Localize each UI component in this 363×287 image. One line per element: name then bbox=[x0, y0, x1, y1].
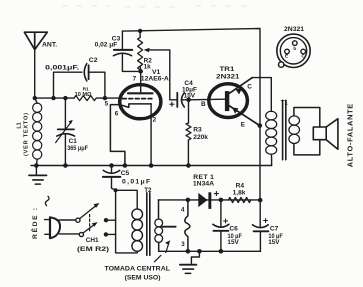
node R4 right / B+ bbox=[258, 198, 263, 203]
tube V1 12AE6-A bbox=[105, 69, 169, 166]
node R2 top bbox=[138, 29, 142, 33]
node switch upper bbox=[104, 218, 108, 222]
capacitor C3 0,02uF bbox=[95, 31, 141, 71]
node C2 right bbox=[103, 96, 107, 100]
svg-text:CH1: CH1 bbox=[86, 237, 99, 244]
transformer T2 bbox=[116, 187, 176, 255]
filament pins 4-3 bbox=[181, 200, 190, 251]
wire faint scan smudge top bbox=[62, 6, 250, 7]
node diode anode / pin4 bbox=[186, 198, 191, 203]
diode RET1 1N34A bbox=[193, 174, 219, 209]
wire plug prong lower bbox=[59, 233, 79, 235]
node R2 bottom / plate bbox=[138, 69, 143, 74]
wire collector to T1 bbox=[252, 78, 271, 112]
svg-text:12AE6-A: 12AE6-A bbox=[141, 76, 169, 83]
svg-text:E: E bbox=[285, 54, 288, 59]
svg-text:10 MΩ: 10 MΩ bbox=[75, 92, 92, 98]
resistor R1 10M bbox=[74, 87, 96, 101]
svg-text:7: 7 bbox=[133, 76, 137, 83]
wire base bbox=[189, 98, 225, 101]
svg-text:3: 3 bbox=[181, 241, 185, 248]
svg-text:(EM R2): (EM R2) bbox=[77, 246, 109, 253]
svg-text:L1: L1 bbox=[17, 122, 23, 128]
svg-text:(VER TEXTO): (VER TEXTO) bbox=[24, 113, 30, 156]
svg-text:C2: C2 bbox=[89, 57, 98, 64]
svg-text:15V: 15V bbox=[268, 239, 280, 246]
svg-text:R3: R3 bbox=[193, 126, 202, 133]
transformer T1 bbox=[266, 99, 300, 165]
wire pin7 plate bbox=[140, 71, 142, 93]
svg-text:RÊDE :: RÊDE : bbox=[30, 208, 39, 239]
svg-text:365 μμF: 365 μμF bbox=[67, 145, 88, 152]
speaker ALTO-FALANTE bbox=[313, 104, 354, 168]
svg-text:0,02 μF: 0,02 μF bbox=[95, 41, 118, 48]
antenna ANT bbox=[24, 32, 57, 49]
svg-text:6: 6 bbox=[115, 110, 119, 117]
resistor R4 1,8k bbox=[228, 183, 250, 203]
wire R2 wiper to C4 bbox=[147, 50, 177, 100]
svg-text:2N321: 2N321 bbox=[216, 73, 239, 80]
wire plug prong upper bbox=[59, 219, 76, 221]
node T2 top / C5 bbox=[114, 188, 118, 192]
svg-text:TR1: TR1 bbox=[220, 66, 235, 73]
svg-text:2: 2 bbox=[153, 117, 157, 124]
wire B+ top bus bbox=[122, 29, 260, 201]
wire bottom return bbox=[159, 250, 261, 252]
node C2 left bbox=[51, 96, 55, 100]
transistor TR1 2N321 bbox=[201, 66, 260, 128]
node C4/R3/base bbox=[186, 98, 191, 103]
svg-text:C: C bbox=[247, 84, 252, 91]
wire label tick bbox=[155, 255, 161, 261]
svg-text:T2: T2 bbox=[144, 187, 152, 194]
wire pin2 bbox=[150, 104, 152, 166]
node L1/ground bbox=[34, 163, 39, 168]
wire speaker loop bbox=[294, 108, 320, 155]
svg-text:TOMADA CENTRAL: TOMADA CENTRAL bbox=[105, 265, 171, 272]
switch CH1 bbox=[76, 203, 109, 253]
inductor L1 bbox=[17, 98, 42, 165]
resistor R3 220k bbox=[186, 100, 208, 166]
svg-text:C7: C7 bbox=[270, 226, 279, 233]
plug REDE bbox=[30, 196, 60, 239]
node pin6 bottom bbox=[123, 163, 128, 168]
wire antenna stem bbox=[34, 50, 36, 99]
svg-text:C6: C6 bbox=[229, 226, 238, 233]
node emitter / B+ bbox=[258, 123, 263, 128]
capacitor C2 0,001uF bbox=[45, 57, 105, 98]
svg-text:ALTO-FALANTE: ALTO-FALANTE bbox=[345, 104, 354, 168]
node ground tap bbox=[197, 249, 202, 254]
node C1 bottom bbox=[63, 163, 68, 168]
capacitor C6 10uF 15V bbox=[213, 200, 242, 251]
ground left bbox=[29, 166, 47, 185]
ground right bbox=[180, 251, 200, 273]
capacitor C1 365uuF variable bbox=[56, 98, 88, 165]
svg-text:E: E bbox=[241, 121, 246, 128]
svg-text:0,001μF.: 0,001μF. bbox=[45, 65, 79, 72]
resistor R2 1k potentiometer bbox=[138, 31, 153, 72]
svg-text:1N34A: 1N34A bbox=[193, 180, 214, 187]
svg-text:(SEM USO): (SEM USO) bbox=[125, 275, 161, 282]
wire rectifier row bbox=[158, 199, 260, 201]
pinout 2N321 bbox=[277, 26, 310, 68]
wire grid bus right bbox=[97, 97, 119, 99]
capacitor C5 0,01uF bbox=[103, 163, 150, 190]
node switch lower bbox=[104, 232, 108, 236]
svg-text:15V: 15V bbox=[227, 239, 239, 246]
node diode cathode bbox=[219, 198, 224, 203]
node pin3 bottom bbox=[186, 249, 191, 254]
wire switch lower stub bbox=[106, 233, 116, 235]
svg-text:220k: 220k bbox=[193, 134, 208, 141]
arrow center tap pointer bbox=[166, 244, 169, 253]
svg-text:2N321: 2N321 bbox=[284, 26, 304, 33]
wire switch upper stub bbox=[106, 219, 116, 221]
svg-text:4: 4 bbox=[181, 207, 185, 214]
svg-text:B: B bbox=[201, 101, 206, 108]
svg-text:5: 5 bbox=[105, 101, 109, 108]
wire bottom bus bbox=[31, 165, 272, 167]
svg-text:T1: T1 bbox=[281, 99, 289, 106]
node antenna/grid junction bbox=[33, 96, 37, 100]
node C1 top bbox=[63, 96, 67, 100]
node R3 bottom bbox=[186, 163, 191, 168]
wire grid bus left bbox=[35, 97, 74, 99]
node pin2 bottom bbox=[149, 163, 154, 168]
svg-text:0,01μF: 0,01μF bbox=[122, 178, 150, 185]
svg-text:1k: 1k bbox=[144, 63, 152, 70]
svg-text:1,8k: 1,8k bbox=[233, 190, 246, 197]
capacitor C7 10uF 15V bbox=[253, 200, 283, 251]
svg-text:C1: C1 bbox=[69, 138, 78, 145]
svg-text:ANT.: ANT. bbox=[42, 42, 57, 49]
svg-text:b: b bbox=[293, 46, 296, 51]
capacitor C4 10uF 15V bbox=[170, 80, 197, 107]
node C6 bottom bbox=[219, 249, 224, 254]
svg-text:C5: C5 bbox=[121, 170, 130, 177]
